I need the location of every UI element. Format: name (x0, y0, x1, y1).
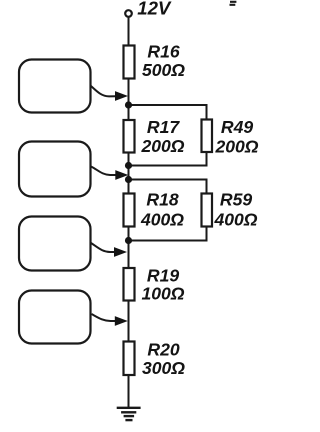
resistor R16 (124, 46, 135, 79)
arrow 2 (91, 167, 117, 176)
node junction A (below R16) (125, 101, 132, 108)
callout box 3 (19, 217, 91, 271)
svg-text:300Ω: 300Ω (142, 358, 185, 378)
svg-text:200Ω: 200Ω (140, 136, 184, 156)
svg-text:200Ω: 200Ω (214, 137, 258, 157)
wire: R16 to R17 (128, 79, 130, 120)
wire: R17 to R18 (128, 153, 130, 194)
node junction D (below R18/R59) (125, 237, 132, 244)
svg-text:R16: R16 (147, 42, 179, 62)
arrow 1 (91, 86, 117, 96)
callout box 2 (19, 142, 91, 197)
callout box 4 (19, 291, 91, 344)
svg-text:R17: R17 (147, 117, 180, 137)
svg-text:R49: R49 (221, 117, 253, 137)
wire: R19 to R20 (128, 301, 130, 341)
resistor R19 (124, 268, 135, 301)
resistor R20 (124, 342, 135, 376)
arrow 3 (91, 243, 116, 252)
resistor R49 (202, 120, 213, 153)
svg-text:R20: R20 (147, 340, 179, 360)
callout box 1 (19, 60, 91, 113)
svg-text:12V: 12V (137, 0, 172, 18)
resistor R17 (124, 120, 135, 153)
node junction B (below R17/R49) (125, 162, 132, 169)
resistor R18 (124, 194, 135, 227)
arrow 4 (92, 314, 117, 321)
resistor R59 (202, 194, 213, 227)
wire: branch to R59 (top) (129, 180, 207, 194)
wire: R18 to R19 (128, 227, 130, 268)
svg-text:R19: R19 (147, 266, 179, 286)
svg-text:100Ω: 100Ω (141, 284, 184, 304)
wire: R59 to node (bottom) (129, 227, 207, 241)
svg-text:R18: R18 (146, 190, 178, 210)
power terminal 12V (125, 10, 132, 17)
partial ground symbol (top right, cropped) (230, 2, 237, 5)
node junction C (above R18/R59) (125, 176, 132, 183)
svg-text:R59: R59 (220, 190, 252, 210)
wire: R49 to node (bottom) (129, 152, 207, 166)
ground (117, 408, 141, 420)
svg-text:500Ω: 500Ω (142, 60, 185, 80)
svg-text:400Ω: 400Ω (140, 210, 184, 230)
svg-text:400Ω: 400Ω (213, 210, 257, 230)
wire: R20 to ground (128, 376, 130, 408)
wire: terminal to R16 (128, 17, 130, 46)
wire: branch to R49 (top) (129, 105, 207, 119)
